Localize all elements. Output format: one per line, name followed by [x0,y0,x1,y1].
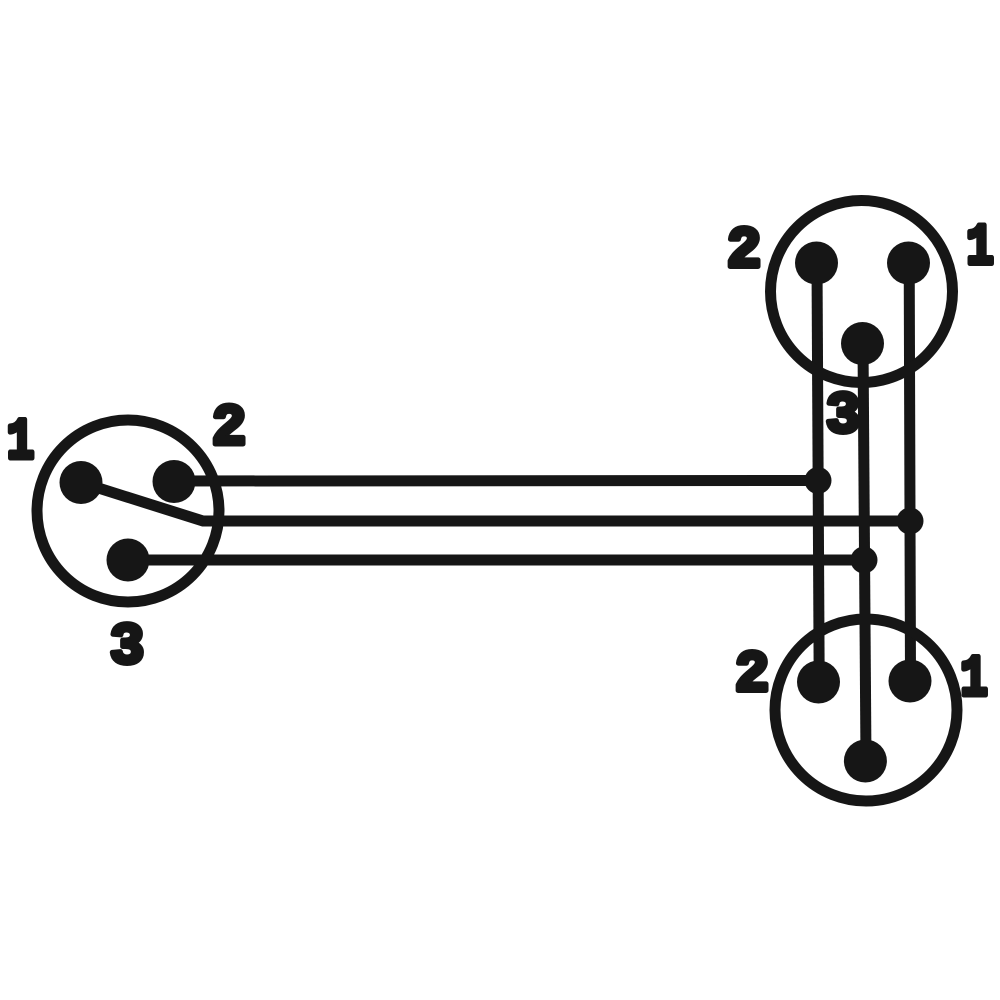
J3 pin 1 [889,660,932,703]
junction net3 [851,547,878,574]
wire: vertical net 3 (top pin3 to bottom pin3) [863,344,866,762]
J2 pin 2 [795,242,838,285]
J1 pin 1 [60,461,103,504]
J1 pin 2 [153,460,196,503]
J3 pin 3 [844,740,887,783]
wire: left pin1 diagonal then horizontal to vertical net 1 [81,483,910,522]
connector J1 body (left XLR) [37,420,219,602]
wire: left pin2 to vertical net 2 [174,475,818,487]
wire: vertical net 2 (top pin2 to bottom pin2) [817,263,819,682]
svg-text:1: 1 [7,409,35,475]
J2 pin 1 [887,242,930,285]
J2 pin 3 [841,322,884,365]
junction net1 [897,508,924,535]
J1 pin 3 [107,539,150,582]
connector J2 body (top right XLR) [771,201,953,383]
wire: left pin3 to vertical net 3 [128,555,864,566]
svg-text:3: 3 [826,385,861,450]
svg-text:2: 2 [727,220,762,285]
svg-text:1: 1 [960,646,988,712]
wire: vertical net 1 (top pin1 to bottom pin1) [909,263,910,681]
connector J3 body (bottom right XLR) [775,619,957,801]
svg-text:3: 3 [110,616,145,681]
svg-text:2: 2 [212,397,247,462]
svg-text:1: 1 [966,215,994,281]
J3 pin 2 [797,661,840,704]
junction net2 [805,467,832,494]
svg-text:2: 2 [735,644,770,709]
